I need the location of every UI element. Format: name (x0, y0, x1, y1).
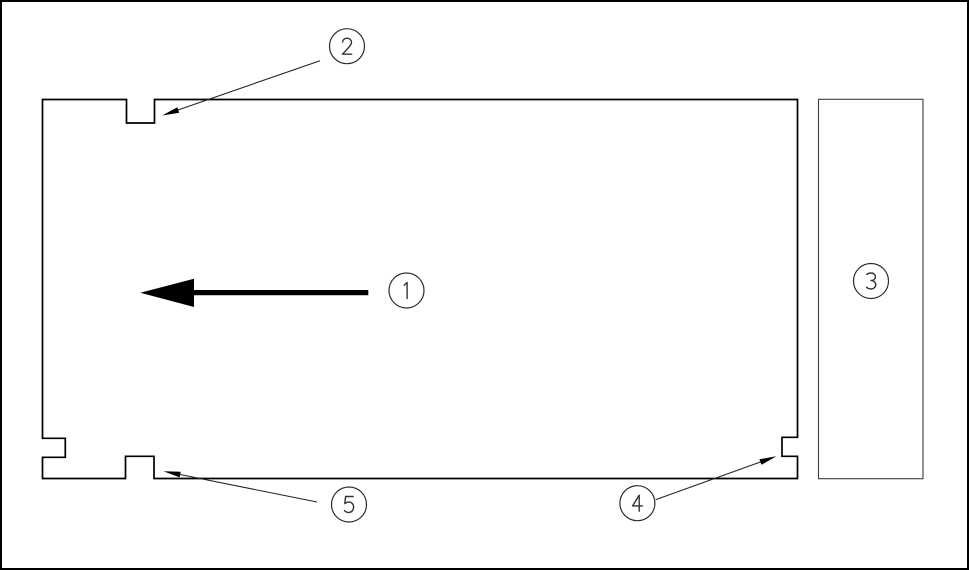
leader arrowhead 4 (759, 456, 776, 465)
balloon circle 5 (332, 487, 367, 522)
leader arrowhead 5 (164, 471, 181, 477)
leader line 5 (167, 472, 317, 502)
balloon circle 1 (389, 273, 424, 308)
balloon circle 2 (330, 29, 365, 64)
panel body outline (main plate with notches) (43, 100, 798, 479)
balloon circle 3 (854, 264, 889, 299)
leader line 2 (165, 61, 320, 115)
direction arrow (item 1) (140, 279, 368, 307)
leader arrowhead 2 (162, 107, 179, 115)
balloon circle 4 (620, 486, 655, 521)
side rail rectangle (item 3) (819, 99, 924, 478)
leader line 4 (656, 458, 773, 500)
